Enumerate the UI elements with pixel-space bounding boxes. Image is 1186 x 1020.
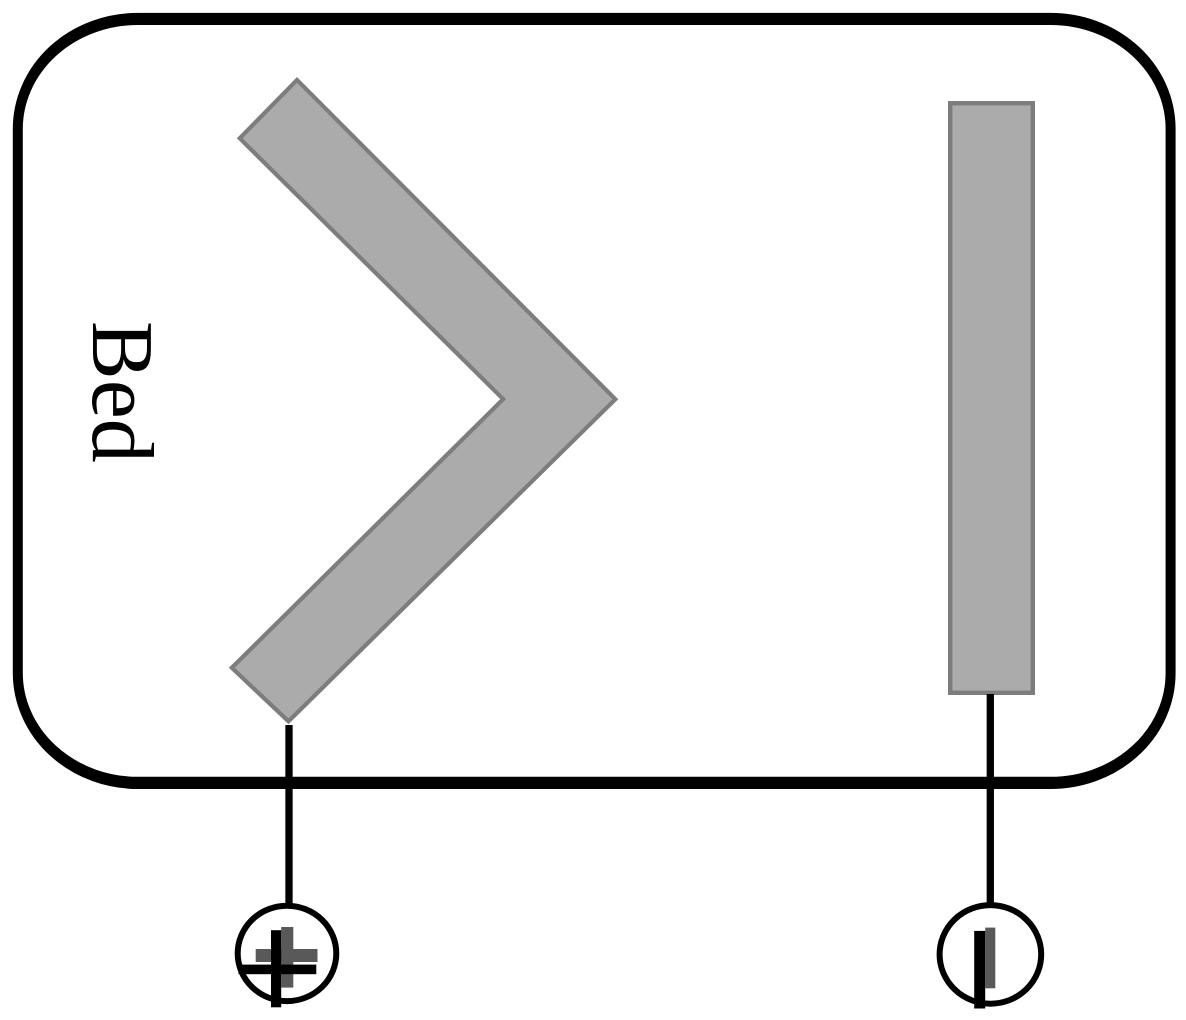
wire (left lead) xyxy=(285,725,292,908)
chevron outline (arrow element inside body) xyxy=(229,77,619,724)
terminal circle + xyxy=(238,906,337,1001)
wire (right lead) xyxy=(987,694,994,908)
plus sign shadow (gray) xyxy=(256,927,318,988)
terminal circle - xyxy=(940,905,1042,1004)
plus sign (black) xyxy=(239,930,317,1007)
minus sign shadow (gray, rotated bar) xyxy=(985,928,995,989)
minus sign (black, rotated bar) xyxy=(974,931,985,1009)
bar electrode (right plate) xyxy=(950,103,1033,693)
chevron fill xyxy=(235,83,613,719)
component body (rounded-rect enclosure) xyxy=(18,19,1171,783)
svg-text:Bed: Bed xyxy=(73,321,170,463)
